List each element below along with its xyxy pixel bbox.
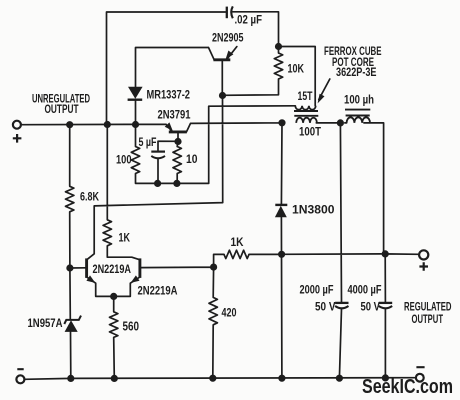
svg-text:4000 µF: 4000 µF	[348, 285, 382, 297]
svg-text:10K: 10K	[288, 62, 305, 76]
svg-text:OUTPUT: OUTPUT	[45, 104, 79, 116]
svg-text:15T: 15T	[298, 91, 313, 103]
svg-text:MR1337-2: MR1337-2	[147, 90, 191, 102]
svg-text:2000 µF: 2000 µF	[300, 285, 334, 297]
svg-text:100T: 100T	[299, 127, 321, 139]
svg-text:3622P-3E: 3622P-3E	[336, 67, 377, 79]
svg-text:1N957A: 1N957A	[28, 318, 63, 330]
svg-text:REGULATED: REGULATED	[404, 302, 452, 314]
svg-text:560: 560	[123, 320, 140, 334]
svg-text:2N3791: 2N3791	[158, 110, 191, 122]
svg-text:1K: 1K	[231, 237, 245, 249]
svg-text:6.8K: 6.8K	[80, 192, 100, 204]
svg-text:2N2905: 2N2905	[212, 33, 244, 45]
svg-text:SeekIC.com: SeekIC.com	[362, 375, 453, 398]
svg-text:2N2219A: 2N2219A	[138, 286, 178, 298]
svg-text:OUTPUT: OUTPUT	[412, 314, 444, 326]
svg-text:100: 100	[116, 155, 132, 167]
svg-text:1K: 1K	[119, 233, 131, 245]
svg-text:1N3800: 1N3800	[292, 205, 335, 217]
svg-text:2N2219A: 2N2219A	[93, 264, 132, 276]
svg-text:5 µF: 5 µF	[139, 137, 157, 149]
svg-text:50 V: 50 V	[315, 302, 336, 314]
svg-text:100 µh: 100 µh	[344, 95, 374, 107]
svg-text:420: 420	[222, 308, 237, 320]
svg-text:.02 µF: .02 µF	[235, 15, 263, 27]
svg-text:10: 10	[186, 154, 198, 166]
svg-text:50 V: 50 V	[361, 302, 381, 314]
